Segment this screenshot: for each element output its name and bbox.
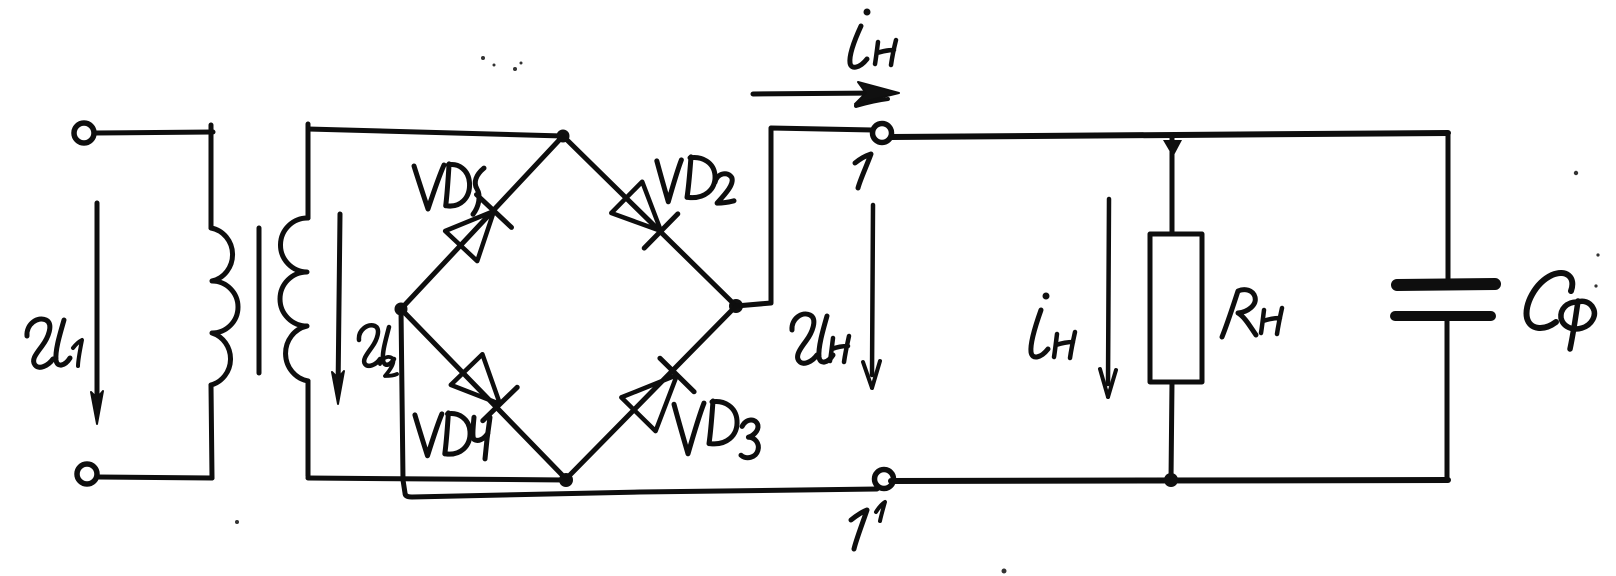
wire secondary top drop — [306, 124, 311, 218]
arrow U2 — [338, 214, 340, 392]
label U1 — [27, 319, 82, 367]
node bottom vertex (junction) — [559, 473, 573, 487]
wire right vertex to up-corner — [736, 128, 873, 306]
stray ink specks — [235, 56, 1600, 574]
arrow U_n — [872, 205, 873, 375]
terminal bottom-left — [77, 464, 97, 484]
junction dot bottom of R_n branch — [1164, 473, 1178, 487]
wire bridge edge left-bottom — [401, 309, 566, 479]
wire bottom rail — [891, 480, 1448, 481]
diode VD2 — [611, 182, 678, 248]
node top vertex (junction) — [557, 130, 570, 143]
wire secondary top to bridge top vertex — [308, 129, 563, 136]
wire primary bottom to terminal — [98, 477, 212, 478]
junction dot top of R_n branch — [1163, 140, 1182, 157]
label U2 — [359, 325, 397, 376]
wire primary top drop — [209, 125, 214, 228]
label 1' — [851, 502, 885, 549]
wire secondary bottom to bridge bottom vertex — [308, 478, 566, 480]
transformer primary winding L1 — [211, 228, 238, 385]
wire top-left to primary — [95, 132, 213, 133]
wire bridge edge bottom-right — [566, 306, 736, 479]
arrow i_n (top) — [753, 93, 880, 94]
wire secondary bottom drop — [306, 381, 311, 476]
arrow i_n (load) — [1108, 199, 1109, 384]
label C_f — [1527, 273, 1595, 349]
node right vertex (junction) — [729, 299, 743, 313]
wire left vertex down — [401, 309, 403, 480]
label R_n — [1222, 290, 1282, 337]
label VD3 — [674, 401, 758, 458]
wire bottom return to terminal 1' — [403, 480, 877, 497]
diode VD4 — [451, 354, 517, 421]
diode VD1 — [445, 195, 511, 262]
label i_n (load) — [1031, 293, 1075, 359]
wire R_n bottom lead — [1171, 382, 1172, 480]
node left vertex (junction) — [395, 303, 408, 316]
wire top rail — [891, 133, 1448, 137]
wire bridge edge top-right — [563, 136, 736, 306]
wire primary bottom drop — [211, 385, 212, 478]
resistor R_n — [1150, 234, 1202, 382]
diode VD3 — [621, 358, 694, 431]
wire cap top lead / right drop — [1446, 133, 1451, 280]
arrow U1 — [95, 203, 100, 412]
label U_n — [792, 314, 849, 363]
transformer secondary winding L2 — [280, 218, 308, 381]
label VD2 — [657, 157, 734, 203]
terminal top-left — [74, 123, 94, 143]
label VD4 — [415, 413, 490, 459]
label 1 — [855, 154, 871, 188]
terminal 1 — [873, 124, 892, 143]
wire cap bottom lead — [1445, 321, 1450, 480]
wire bridge edge left-top — [401, 136, 563, 309]
wire R_n top lead — [1170, 136, 1175, 234]
capacitor C_f top plate — [1397, 284, 1495, 285]
capacitor C_f bottom plate — [1395, 311, 1491, 321]
label VD1 — [414, 164, 484, 214]
label i_n (top) — [850, 9, 896, 68]
terminal 1' — [875, 470, 894, 489]
transformer core — [257, 228, 262, 373]
